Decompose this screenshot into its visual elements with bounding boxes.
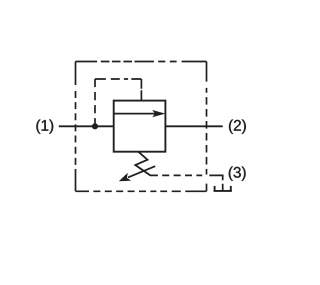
port label (3) xyxy=(229,167,246,181)
port label (2) xyxy=(229,120,246,134)
wire: main line port 1 to valve xyxy=(59,125,114,127)
port label (1) xyxy=(36,120,53,134)
adjustment arrow (diagonal) across spring xyxy=(119,166,155,181)
wire: main line valve to port 2 xyxy=(165,125,222,127)
node: junction dot on inlet line xyxy=(92,123,98,129)
flow arrow inside valve xyxy=(114,110,165,117)
tank symbol at port 3 xyxy=(214,186,232,192)
wire: drain line (dashed) from spring to port 3 tank xyxy=(150,175,223,191)
enclosure: dashed component boundary xyxy=(76,62,207,192)
relief valve envelope (square) xyxy=(114,101,166,152)
spring (zigzag) below valve xyxy=(135,152,150,176)
wire: pilot line (dashed) from junction up, across, down to valve top xyxy=(95,79,141,126)
